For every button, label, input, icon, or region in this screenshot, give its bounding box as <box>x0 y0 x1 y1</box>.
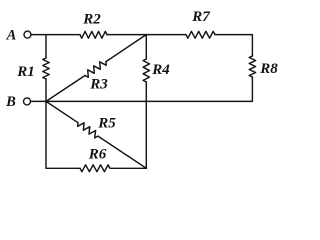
svg-text:R3: R3 <box>89 77 108 93</box>
resistor R1 <box>43 58 49 79</box>
terminal B <box>24 98 31 105</box>
wire node B horizontal <box>46 100 146 102</box>
wire B circle lead <box>31 100 46 102</box>
svg-text:B: B <box>5 94 16 110</box>
wire R3 to top junction <box>106 35 146 62</box>
resistor R3 <box>85 62 106 78</box>
terminal A <box>24 31 31 38</box>
wire R5 to bottom-right corner <box>98 136 146 168</box>
wire node B to R3 <box>46 76 85 102</box>
resistor R8 <box>249 56 255 77</box>
resistor R4 <box>143 59 149 82</box>
wire node B down to bottom-left corner <box>46 101 80 168</box>
wire R8 to bottom-right corner <box>146 77 252 101</box>
svg-text:A: A <box>6 28 17 44</box>
svg-text:R4: R4 <box>151 62 170 78</box>
wire R7 to top-right corner <box>215 35 252 56</box>
wire R1 to node B <box>45 79 47 101</box>
resistor R5 <box>78 123 98 138</box>
svg-text:R8: R8 <box>259 61 278 77</box>
wire R4 to top junction <box>145 35 147 59</box>
svg-text:R1: R1 <box>16 64 35 80</box>
resistor R7 <box>186 31 215 38</box>
svg-text:R6: R6 <box>88 147 107 163</box>
svg-text:R5: R5 <box>97 116 116 132</box>
wire A junction down to R1 <box>45 35 47 58</box>
wire R2 to R7 <box>107 34 186 36</box>
wire R6 to bottom-right corner <box>110 167 146 169</box>
wire node B to R5 <box>46 101 78 122</box>
resistor R6 <box>80 165 110 172</box>
wire A to R2 <box>31 34 80 36</box>
wire bottom corner up to R4 <box>145 82 147 168</box>
resistor R2 <box>80 31 107 38</box>
svg-text:R7: R7 <box>191 9 210 25</box>
svg-text:R2: R2 <box>82 11 101 27</box>
